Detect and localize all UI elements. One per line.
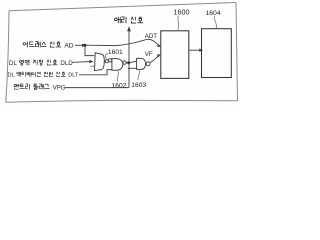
svg-text:1602: 1602: [112, 82, 127, 89]
svg-text:DL: DL: [9, 60, 17, 67]
svg-text:1603: 1603: [131, 82, 146, 89]
svg-text:ADT: ADT: [145, 33, 157, 40]
svg-text:1600: 1600: [174, 8, 190, 17]
svg-text:1604: 1604: [206, 10, 221, 17]
svg-text:AD: AD: [64, 42, 73, 49]
svg-text:VF: VF: [145, 51, 153, 58]
svg-text:VPG: VPG: [53, 84, 66, 91]
svg-text:DLD: DLD: [60, 60, 73, 67]
svg-text:DL: DL: [8, 73, 15, 79]
svg-text:1601: 1601: [108, 49, 123, 56]
svg-text:DLT: DLT: [68, 73, 79, 79]
